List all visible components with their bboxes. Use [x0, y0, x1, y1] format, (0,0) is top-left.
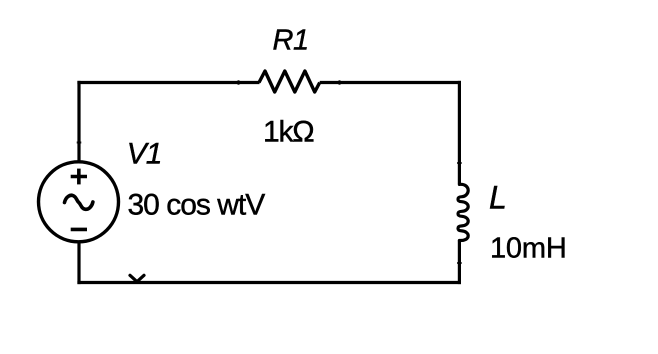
minus symbol	[71, 228, 87, 232]
wire top right segment	[320, 81, 461, 84]
wire left lower	[77, 242, 80, 285]
wire left upper (source top to top-left corner)	[77, 81, 80, 162]
wire right upper	[458, 81, 461, 184]
svg-text:1kΩ: 1kΩ	[263, 115, 314, 148]
svg-text:R1: R1	[273, 24, 309, 56]
resistor R1	[259, 71, 320, 92]
junction tick right wire above inductor	[457, 162, 462, 164]
junction tick top wire right of resistor	[339, 80, 341, 85]
wire top left segment	[77, 81, 259, 84]
junction tick top wire left of resistor	[238, 80, 240, 85]
wire right lower	[458, 241, 461, 285]
inductor L coil	[458, 184, 468, 240]
voltage source V1 circle	[39, 162, 119, 242]
svg-text:L: L	[489, 179, 507, 215]
junction tick right wire below inductor	[457, 262, 462, 264]
svg-text:10mH: 10mH	[490, 232, 567, 264]
arrowhead on bottom wire	[130, 275, 144, 281]
svg-text:30 cos wtV: 30 cos wtV	[128, 188, 266, 221]
wire bottom	[77, 281, 461, 284]
junction tick left wire above source	[77, 142, 82, 144]
svg-text:V1: V1	[127, 138, 162, 171]
plus symbol	[71, 175, 87, 179]
sine symbol	[65, 195, 93, 209]
